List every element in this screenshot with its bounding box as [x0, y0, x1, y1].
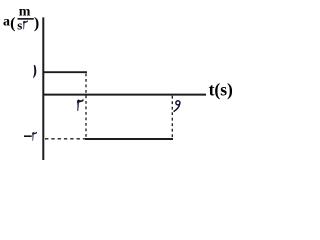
tick label 6 (Persian) on t axis — [174, 101, 180, 112]
dashed drop line at t=2 — [85, 74, 87, 139]
dashed drop line at t=6 — [171, 96, 173, 138]
a=1 segment (0 to 2 s) — [43, 71, 87, 73]
svg-text:s: s — [17, 17, 22, 32]
y-axis (acceleration axis) — [42, 17, 44, 160]
svg-text:t(s): t(s) — [209, 79, 233, 99]
exponent 2 (Persian) — [23, 20, 28, 29]
t-axis (time axis) — [43, 94, 206, 96]
tick label -2 (Persian) on a axis — [24, 131, 37, 140]
a(m/s2) axis label — [3, 4, 39, 32]
tick label 1 (Persian) on a axis — [33, 65, 36, 78]
dashed level line at a=-2 — [45, 138, 85, 140]
tick label 2 (Persian) on t axis — [77, 99, 84, 112]
svg-text:a: a — [3, 14, 10, 29]
svg-text:(: ( — [10, 15, 15, 32]
a=-2 segment (2 to 6 s) — [85, 138, 173, 140]
svg-text:): ) — [34, 15, 39, 32]
